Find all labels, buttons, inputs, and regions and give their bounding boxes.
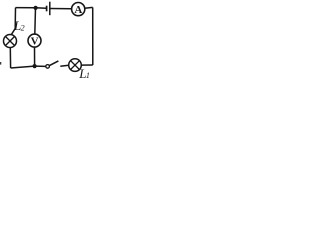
node junction bottom (voltmeter tap) [33,64,37,68]
switch S1 pivot [46,65,50,69]
wire left side below lamp L2 [9,47,11,68]
svg-text:L1: L1 [78,66,90,80]
ammeter A1 [72,3,85,17]
battery B1 long plate [49,2,51,16]
wire voltmeter branch top [34,8,37,35]
wire lamp L1 to switch fixed contact [60,65,68,66]
wire bottom-right corner to lamp L1 [81,64,93,66]
stray mark left edge [0,62,1,65]
wire lamp L2 top to top-left corner [11,8,15,35]
wire bottom junction to bottom-left corner [11,66,35,68]
wire battery to ammeter [51,8,72,10]
voltmeter V1 [28,34,41,48]
wire switch to bottom junction [35,65,46,67]
svg-text:A: A [74,4,82,16]
wire ammeter to top-right corner [85,6,93,9]
switch S1 lever [49,61,58,66]
wire right side [92,7,94,65]
lamp L1 [69,59,82,72]
svg-text:V: V [31,36,39,48]
node junction top (voltmeter tap) [34,6,38,10]
wire top-left to battery [16,7,47,10]
battery B1 short plate [46,6,48,12]
lamp L2 [4,35,17,48]
wire voltmeter branch bottom [34,47,36,66]
